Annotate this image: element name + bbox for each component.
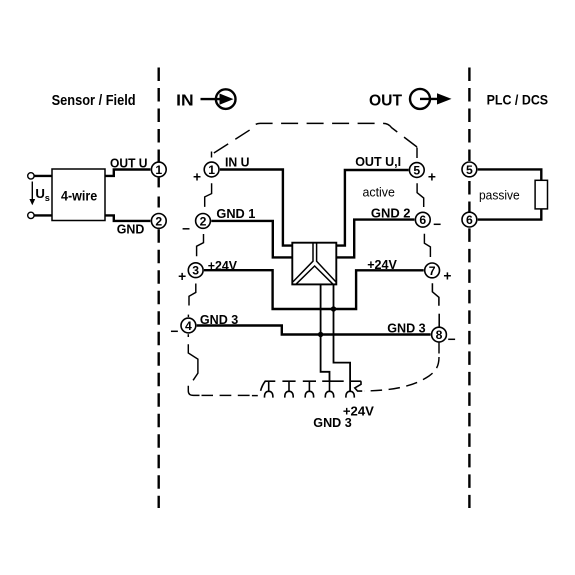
bus contact 5 (+24V) — [346, 381, 362, 397]
svg-text:Sensor / Field: Sensor / Field — [52, 93, 136, 109]
svg-text:IN U: IN U — [225, 155, 250, 170]
svg-text:IN: IN — [176, 92, 194, 109]
device outline: brace below terminal 4 and bottom-left corner — [188, 334, 257, 395]
svg-text:+: + — [428, 170, 436, 185]
wire: 4-wire box OUT U to terminal 1 — [105, 170, 150, 176]
svg-text:OUT U: OUT U — [110, 155, 148, 170]
svg-text:GND 3: GND 3 — [387, 321, 426, 336]
svg-text:−: − — [448, 332, 456, 347]
bus contact 3 — [303, 381, 316, 397]
device outline: squiggle between terminals 3-4 — [188, 284, 195, 318]
junction dot GND3 / supply lead A — [318, 332, 323, 337]
terminal circle 5 (PLC side) — [462, 162, 477, 177]
svg-text:OUT U,I: OUT U,I — [355, 154, 401, 169]
svg-text:1: 1 — [155, 163, 162, 177]
circle of IN symbol — [216, 89, 236, 109]
svg-text:4: 4 — [185, 319, 192, 333]
svg-text:−: − — [170, 324, 178, 339]
svg-text:OUT: OUT — [369, 92, 402, 109]
junction dot +24V / supply lead B — [331, 306, 336, 311]
svg-text:3: 3 — [192, 264, 199, 278]
svg-text:6: 6 — [466, 213, 473, 227]
svg-text:1: 1 — [208, 163, 215, 177]
device outline: squiggle between terminals 6-7 — [424, 234, 430, 257]
isolation Y divider — [293, 243, 313, 282]
device outline: squiggle between terminals 1-2 — [205, 183, 212, 207]
bus contact 1 — [261, 381, 276, 398]
svg-text:PLC / DCS: PLC / DCS — [487, 91, 548, 107]
terminal circle 1 (field side) — [151, 162, 166, 177]
svg-text:active: active — [363, 185, 395, 200]
device outline: dashed curve bottom-right — [364, 342, 439, 391]
svg-text:GND 3: GND 3 — [200, 312, 238, 327]
wire: GND 3 net (terminal 4 to terminal 8) — [197, 326, 431, 335]
svg-text:GND 3: GND 3 — [313, 415, 351, 430]
svg-text:7: 7 — [429, 264, 436, 278]
boundary slash at bus contact 1 — [261, 381, 266, 391]
wire: PLC terminal 5 to load resistor — [478, 169, 542, 180]
terminal circle 6 (device) — [415, 212, 430, 227]
wire: +24V net (terminal 3 to terminal 7) — [204, 270, 424, 309]
svg-text:5: 5 — [413, 163, 420, 177]
circle of OUT symbol — [410, 89, 430, 109]
section divider: PLC/DCS boundary (right dashed line) — [468, 68, 470, 509]
OUT flow symbol — [369, 89, 452, 109]
svg-text:6: 6 — [419, 213, 426, 227]
terminal circle 4 (device) — [181, 318, 196, 333]
terminal circle 1 (device) — [204, 162, 219, 177]
svg-text:+24V: +24V — [367, 257, 397, 272]
sensor supply terminal (bottom, open circle) — [28, 212, 34, 218]
wire: OUT arrow lead — [420, 98, 439, 100]
wire: sensor bottom terminal to 4-wire box — [34, 214, 52, 216]
wire: IN U (terminal 1 to isolator) — [220, 170, 292, 246]
isolator U1 (3-port isolation amplifier) — [292, 243, 336, 285]
load resistor (passive input) — [535, 180, 547, 209]
svg-text:2: 2 — [200, 214, 207, 228]
terminal circle 6 (PLC side) — [462, 212, 477, 227]
svg-text:U: U — [35, 186, 45, 201]
device outline: squiggle between terminals 7-8 — [432, 283, 439, 327]
sensor supply terminal (top, open circle) — [28, 173, 34, 179]
svg-text:−: − — [433, 217, 441, 232]
wire: isolator supply lead B (to bus contact 5, +24V) — [334, 284, 351, 391]
terminal circle 5 (device) — [409, 163, 424, 178]
svg-text:4-wire: 4-wire — [61, 189, 97, 204]
Us arrow (supply voltage) — [29, 182, 35, 206]
svg-text:−: − — [182, 221, 190, 236]
svg-text:passive: passive — [479, 188, 520, 203]
svg-text:+: + — [193, 170, 201, 185]
section divider: Sensor/Field boundary (left dashed line) — [157, 68, 159, 509]
svg-text:GND 2: GND 2 — [371, 206, 411, 221]
svg-text:GND 1: GND 1 — [216, 206, 255, 221]
svg-text:2: 2 — [155, 214, 162, 228]
4-wire sensor box — [52, 169, 105, 221]
svg-text:8: 8 — [436, 328, 443, 342]
boundary hook at bus contact 5 — [355, 381, 362, 391]
wire: isolator supply lead A (to bus contact 4, GND 3) — [321, 284, 330, 381]
device outline: squiggle between terminals 5-6 — [417, 183, 424, 207]
svg-text:+: + — [178, 269, 186, 284]
svg-text:+: + — [443, 268, 451, 283]
arrowhead IN — [220, 94, 234, 105]
wire: PLC terminal 6 to load resistor — [478, 209, 542, 220]
svg-text:+24V: +24V — [208, 258, 238, 273]
wire: OUT U,I (isolator to terminal 5) — [336, 170, 408, 246]
wire: GND 1 (terminal 2 to isolator) — [211, 221, 292, 258]
wire: IN arrow lead — [201, 98, 222, 100]
wire: 4-wire box GND to terminal 2 — [105, 215, 150, 221]
arrowhead OUT — [437, 93, 452, 104]
terminal circle 2 (device) — [196, 214, 211, 229]
terminal circle 8 (device) — [432, 327, 447, 342]
bus contact 4 (GND 3) — [322, 381, 344, 397]
terminal circle 2 (field side) — [151, 214, 166, 229]
svg-text:GND: GND — [117, 222, 145, 237]
bus contact 2 — [282, 381, 295, 397]
svg-text:5: 5 — [466, 163, 473, 177]
device outline: top dashed boundary — [211, 123, 418, 158]
IN flow symbol — [176, 89, 235, 109]
wire: sensor top terminal to 4-wire box — [34, 175, 52, 177]
terminal circle 7 (device) — [425, 263, 440, 278]
device outline: squiggle between terminals 2-3 — [197, 234, 204, 256]
terminal circle 3 (device) — [188, 263, 203, 278]
wire: GND 2 (isolator to terminal 6) — [336, 220, 414, 258]
svg-text:s: s — [45, 193, 50, 203]
